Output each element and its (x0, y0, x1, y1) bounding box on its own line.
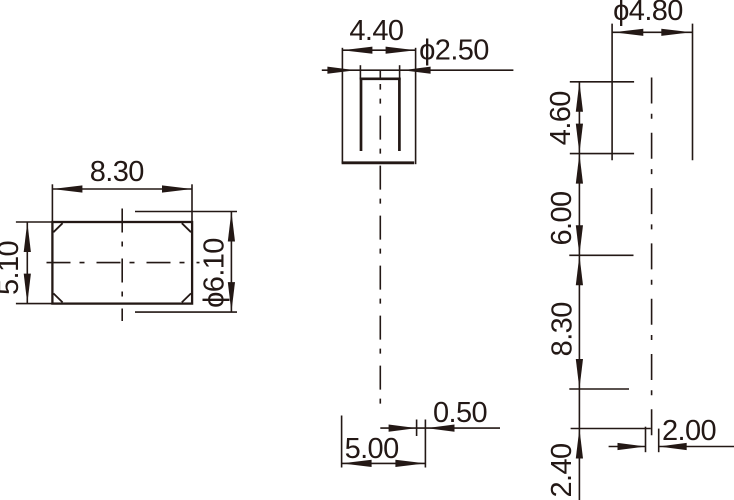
dimension 2.00 extension tick left (645, 427, 647, 453)
dimension 5.10 extension line bottom (16, 303, 53, 305)
dimension dia 6.10 line (230, 212, 232, 313)
dimension 2.00 arrow left (618, 443, 646, 450)
svg-text:5.00: 5.00 (345, 433, 399, 465)
dimension 6.00 arrow top (576, 154, 583, 184)
dimension 4.40 extension line left (341, 48, 343, 70)
dimension 2.00 line left part (609, 446, 646, 448)
dimension dia 2.50 line (322, 69, 514, 71)
dimension 0.50 extension tick left (416, 420, 418, 437)
height stack extension line at 4.60 top (570, 81, 634, 83)
dimension 5.00 / 0.50 shared extension line right (424, 420, 426, 468)
dimension 0.50 arrow right (427, 425, 455, 432)
dimension dia 4.80 arrow right (661, 29, 691, 36)
dimension 2.00 line right part (659, 446, 734, 448)
dimension 8.30 right arrow top (576, 255, 583, 285)
height dimension stack main line (578, 82, 580, 500)
dimension 4.40 extension line right (415, 48, 417, 70)
dimension dia 6.10 extension line bottom (135, 311, 237, 313)
dimension dia 2.50 arrow left (327, 67, 355, 74)
side view outer body bottom edge (342, 161, 415, 164)
side view rotor slot right wall (398, 78, 401, 151)
dimension 2.00 arrow right (659, 443, 687, 450)
height stack extension line between 4.60 and 6.00 (570, 153, 634, 155)
svg-text:8.30: 8.30 (90, 156, 144, 188)
dimension dia 4.80 extension line left (611, 24, 613, 161)
height stack extension line below 8.30 (569, 388, 629, 390)
dimension 6.00 arrow bottom (576, 225, 583, 255)
side view rotor slot top edge (360, 77, 401, 80)
dimension 2.00 extension tick right (658, 429, 660, 453)
shaft vertical centerline right view (651, 78, 653, 436)
dimension 5.00 arrow left (342, 460, 372, 467)
dimension dia 6.10 arrow top (228, 212, 235, 242)
dimension 5.00 arrow right (395, 460, 425, 467)
dimension 4.40 line (342, 49, 415, 51)
svg-text:4.40: 4.40 (349, 15, 403, 47)
dimension 0.50 line (380, 427, 500, 429)
top view corner chamfer bottom-right (182, 293, 191, 302)
side view outer body right edge (415, 70, 417, 164)
dimension dia 6.10 extension line top (135, 211, 237, 213)
dimension dia 6.10 arrow bottom (228, 282, 235, 312)
svg-text:ϕ4.80: ϕ4.80 (613, 0, 683, 27)
side view rotor slot left wall (360, 78, 363, 151)
dimension 4.60 arrow bottom (576, 124, 583, 154)
dimension 8.30 extension line left (51, 184, 53, 222)
svg-text:ϕ6.10: ϕ6.10 (199, 238, 231, 308)
dimension 5.10 arrow top (24, 222, 31, 252)
top view corner chamfer bottom-left (53, 293, 62, 302)
dimension 8.30 right arrow bottom (576, 359, 583, 389)
dimension 8.30 arrow left (52, 185, 82, 192)
dimension 2.40 arrow top (576, 429, 583, 459)
svg-text:2.00: 2.00 (662, 415, 716, 447)
dimension 4.40 arrow left (342, 47, 372, 54)
side view vertical centerline (379, 84, 381, 410)
dimension 4.40 arrow right (386, 47, 416, 54)
svg-text:ϕ2.50: ϕ2.50 (419, 35, 489, 67)
dimension dia 2.50 extension line left (359, 65, 361, 79)
dimension 5.10 line (26, 222, 28, 304)
dimension dia 4.80 arrow left (613, 29, 643, 36)
dimension 5.00 extension line left (341, 416, 343, 468)
dimension dia 4.80 line (612, 31, 692, 33)
svg-text:5.10: 5.10 (0, 241, 25, 295)
dimension dia 4.80 extension line right (692, 24, 694, 161)
height stack extension line between 6.00 and 8.30 (569, 254, 633, 256)
height stack extension line at 2.40 top (571, 428, 651, 430)
top view horizontal centerline (47, 262, 200, 264)
dimension dia 2.50 extension line right (399, 65, 401, 79)
svg-text:8.30: 8.30 (547, 302, 579, 356)
svg-text:0.50: 0.50 (433, 397, 487, 429)
dimension 8.30 arrow right (162, 185, 192, 192)
dimension dia 2.50 arrow right (403, 67, 431, 74)
dimension 8.30 line (52, 188, 192, 190)
top view vertical centerline (121, 209, 123, 322)
top view corner chamfer top-right (182, 223, 191, 232)
dimension 8.30 extension line right (191, 184, 193, 222)
top view body outline (52, 222, 192, 304)
dimension 0.50 arrow left (389, 425, 417, 432)
svg-text:2.40: 2.40 (546, 443, 578, 497)
side view outer body left edge (341, 70, 343, 163)
top view corner chamfer top-left (53, 223, 62, 232)
side view vertical centerline upper tick (379, 70, 381, 79)
svg-text:4.60: 4.60 (545, 91, 577, 145)
dimension 5.00 line (342, 462, 426, 464)
dimension 5.10 arrow bottom (24, 274, 31, 304)
dimension 4.60 arrow top (576, 82, 583, 112)
svg-text:6.00: 6.00 (546, 191, 578, 245)
dimension 5.10 extension line top (16, 221, 53, 223)
